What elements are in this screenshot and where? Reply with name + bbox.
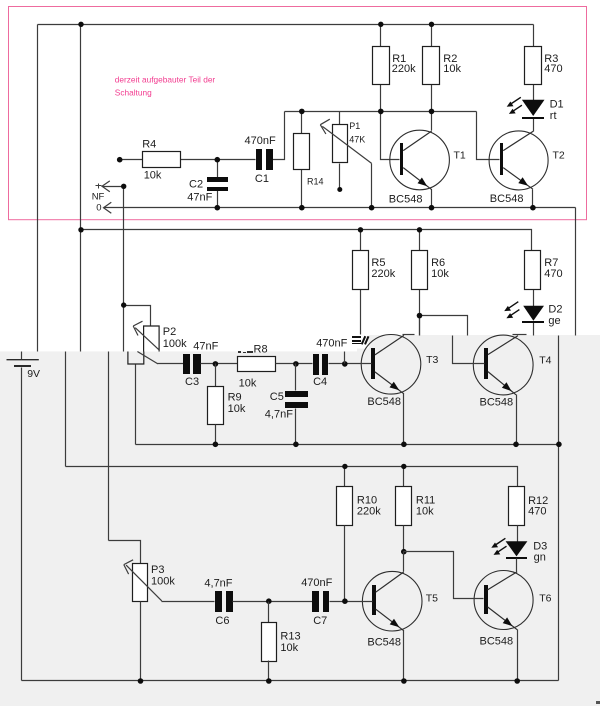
node stage2 rail T3 emitter xyxy=(401,442,407,448)
resistor R12 xyxy=(509,487,549,526)
wire R4 right to C2 node xyxy=(181,159,256,161)
P1 wiper diagonal xyxy=(322,126,371,163)
node bottom rail T6 emitter xyxy=(514,678,520,684)
svg-text:47nF: 47nF xyxy=(187,192,212,204)
node zero rail T1 emitter xyxy=(429,205,435,211)
wire R6 top stem xyxy=(419,230,421,251)
svg-text:10k: 10k xyxy=(443,63,461,75)
wire R14 bottom stem xyxy=(301,170,303,208)
node P1 lower open end xyxy=(337,187,342,192)
node C3/R9 junction xyxy=(213,361,219,367)
wire battery negative down to bottom rail xyxy=(21,368,23,681)
svg-text:9V: 9V xyxy=(27,368,40,380)
wire C5 top stem xyxy=(295,364,297,391)
svg-text:R4: R4 xyxy=(142,139,156,151)
node stage3 rail R11 xyxy=(401,464,406,469)
wire T6 emitter down to bottom rail xyxy=(517,630,519,681)
wire R5 bottom stem ending at seam xyxy=(360,289,362,335)
node base rail R14 xyxy=(299,109,305,115)
capacitor C5 xyxy=(265,391,308,421)
wire R11 bottom to collector node xyxy=(403,526,405,552)
wire T2 base feed corner xyxy=(477,112,500,160)
resistor R4 xyxy=(142,139,180,182)
svg-text:470: 470 xyxy=(544,63,562,75)
resistor R11 xyxy=(396,487,436,526)
wire C4 to T3 base xyxy=(329,363,372,365)
wire C2 top stem xyxy=(217,160,219,178)
gray page background lower-right region xyxy=(357,335,600,706)
svg-text:100k: 100k xyxy=(163,338,187,350)
seam artifact arc fragment above T3 xyxy=(403,334,415,336)
transistor T5 xyxy=(362,571,422,631)
svg-text:C4: C4 xyxy=(313,376,327,388)
transistor T1 xyxy=(390,130,450,190)
wire supply distribution vertical x81 xyxy=(80,25,82,352)
potentiometer P3 xyxy=(133,564,176,602)
wire right outer vertical lower part xyxy=(558,336,560,681)
wire P3 bottom stem to bottom rail xyxy=(140,602,142,681)
svg-text:470nF: 470nF xyxy=(301,577,332,589)
wire R7 bottom to D2 anode xyxy=(533,289,535,307)
svg-text:BC548: BC548 xyxy=(389,193,423,205)
capacitor C3 xyxy=(183,340,219,388)
capacitor C1 xyxy=(245,135,276,185)
P2 wiper diagonal upper xyxy=(135,328,159,351)
svg-text:P2: P2 xyxy=(163,326,176,338)
resistor R13 xyxy=(262,623,301,662)
LED D1 emission arrows xyxy=(507,97,522,114)
wire R1 top stem xyxy=(380,25,382,47)
node bottom rail T5 emitter xyxy=(401,678,407,684)
wire R14 top stem xyxy=(301,112,303,134)
wire T6 base feed jog xyxy=(404,552,484,599)
wire signal from wiper to C3 xyxy=(158,363,184,365)
wire corner from C1 up to base rail xyxy=(273,112,285,160)
svg-text:100k: 100k xyxy=(151,576,175,588)
svg-text:10k: 10k xyxy=(280,642,298,654)
node base rail R1/T1 xyxy=(378,109,384,115)
svg-text:470: 470 xyxy=(544,268,562,280)
wire D1 cathode to T2 collector xyxy=(533,119,535,132)
svg-text:220k: 220k xyxy=(392,63,416,75)
wire stage3 top rail xyxy=(66,467,518,487)
wire top supply rail stage1 xyxy=(38,24,534,26)
wire C3 to R8 xyxy=(201,363,238,365)
wire R11 top stem xyxy=(403,467,405,487)
wire P3 top feed jog xyxy=(109,541,141,564)
svg-text:Schaltung: Schaltung xyxy=(115,88,152,98)
svg-text:0: 0 xyxy=(96,202,101,213)
wire R8 to C4 xyxy=(276,363,313,365)
wire T4 base feed lower jog xyxy=(453,336,485,364)
P2 wiper diagonal lower xyxy=(137,352,158,364)
wire C2 bottom stem to zero rail xyxy=(217,191,219,208)
bottom right corner tiny mark xyxy=(596,701,600,704)
wire stage2 node to T4 base upper jog xyxy=(420,316,468,336)
svg-text:C1: C1 xyxy=(255,173,269,185)
node C6/R13 junction xyxy=(266,598,272,604)
svg-text:R10: R10 xyxy=(357,494,377,506)
wire R5 top stem xyxy=(360,230,362,251)
wire R2 bottom stem xyxy=(431,84,433,112)
node bottom rail P3 xyxy=(138,678,144,684)
wire zero rail stage1 xyxy=(104,207,576,209)
svg-text:BC548: BC548 xyxy=(490,193,524,205)
wire stage2 top rail xyxy=(81,230,532,251)
node R11 bottom junction xyxy=(401,549,407,555)
gray page background lower-left region xyxy=(0,351,357,706)
svg-text:C5: C5 xyxy=(270,391,284,403)
svg-text:T3: T3 xyxy=(426,354,438,366)
NF plus signal vertical down xyxy=(123,187,125,352)
svg-text:47K: 47K xyxy=(349,135,365,145)
wire bottom rail xyxy=(22,680,559,682)
svg-text:C3: C3 xyxy=(185,376,199,388)
svg-text:C2: C2 xyxy=(189,179,203,191)
wire NF plus vertical lower part xyxy=(108,352,110,541)
resistor R7 xyxy=(525,251,563,290)
battery 9V short thick plate xyxy=(14,365,31,367)
LED D3 xyxy=(506,540,548,563)
P3 wiper diagonal xyxy=(126,565,162,601)
wire D3 cathode to T6 collector xyxy=(516,559,518,572)
node stage2 top rail left xyxy=(78,227,83,232)
wire T1 base feed from rail xyxy=(381,112,400,160)
wire C7 to T5 base xyxy=(330,601,373,603)
seam artifact slashes xyxy=(362,336,369,344)
svg-text:T1: T1 xyxy=(454,149,466,161)
wire P1 bottom stem to open end xyxy=(339,164,341,190)
wire T1 collector up to R2 node xyxy=(431,112,433,131)
svg-text:R8: R8 xyxy=(254,344,268,356)
LED D1 xyxy=(522,98,564,122)
wire R12 bottom to D3 anode xyxy=(517,526,519,542)
node stage2 rail right end xyxy=(556,442,562,448)
node NF plus junction xyxy=(121,184,126,189)
svg-text:10k: 10k xyxy=(228,403,246,415)
transistor T3 xyxy=(361,335,421,395)
svg-text:10k: 10k xyxy=(416,506,434,518)
wire P2 top feed from NF vertical xyxy=(124,306,151,327)
svg-text:gn: gn xyxy=(534,551,546,563)
svg-text:T2: T2 xyxy=(553,149,565,161)
wire P1 wiper drop to zero rail xyxy=(371,164,373,208)
seam artifact arc fragment above T4 xyxy=(513,334,527,336)
node stage2 base rail R6 xyxy=(417,313,423,319)
wire R4 left stem xyxy=(120,159,143,161)
svg-text:10k: 10k xyxy=(239,377,257,389)
wire T2 emitter down to zero rail xyxy=(532,190,534,208)
svg-text:10k: 10k xyxy=(144,169,162,181)
node R4/C2/C1 junction xyxy=(215,157,221,163)
node C7/R10/T5 base junction xyxy=(342,598,348,604)
svg-text:P1: P1 xyxy=(349,121,360,131)
svg-text:470: 470 xyxy=(528,506,546,518)
wire T5 emitter down to bottom rail xyxy=(403,631,405,681)
node top rail x81 xyxy=(78,22,83,27)
battery 9V long plate xyxy=(7,359,39,361)
potentiometer P1 xyxy=(333,121,366,162)
wire T3 collector vertical gap stub xyxy=(419,316,421,336)
node zero rail C2 xyxy=(215,205,221,211)
wire stage1 base rail horizontal y111 xyxy=(285,111,477,113)
wire left outer vertical from top rail xyxy=(37,25,39,352)
wire stub above T3 base node xyxy=(344,352,346,364)
wire R2 top stem xyxy=(431,25,433,47)
transistor T2 xyxy=(489,131,548,190)
wire R1 bottom stem to base rail xyxy=(380,84,382,112)
svg-text:D1: D1 xyxy=(550,98,564,110)
svg-text:derzeit aufgebauter Teil der: derzeit aufgebauter Teil der xyxy=(115,75,216,85)
svg-text:BC548: BC548 xyxy=(480,397,514,409)
node R8/C5 junction xyxy=(293,361,299,367)
LED D3 emission arrows xyxy=(491,538,506,555)
svg-text:R11: R11 xyxy=(416,494,435,506)
wire R13 top stem xyxy=(268,602,270,623)
pink highlight frame around built part xyxy=(9,7,587,220)
wire P2 bottom stem down to stage2 emitter rail xyxy=(135,365,137,445)
wire D2 cathode stub ending at seam xyxy=(533,323,535,336)
svg-text:R14: R14 xyxy=(307,177,324,187)
svg-text:ge: ge xyxy=(548,315,560,327)
svg-text:4,7nF: 4,7nF xyxy=(265,409,293,421)
resistor R5 xyxy=(353,251,396,290)
wire P1 top stem xyxy=(339,112,341,125)
node stage2 rail T4 emitter xyxy=(513,442,519,448)
seam artifact clipped R8 text remnants xyxy=(238,351,253,353)
svg-text:220k: 220k xyxy=(357,506,381,518)
svg-text:C7: C7 xyxy=(313,615,327,627)
capacitor C2 xyxy=(187,177,228,204)
wire R9 bottom stem xyxy=(215,425,217,445)
node zero rail T2 emitter xyxy=(530,205,536,211)
svg-text:10k: 10k xyxy=(431,268,449,280)
wire zero rail right corner down to seam xyxy=(575,208,577,336)
capacitor C4 xyxy=(313,337,348,387)
svg-text:220k: 220k xyxy=(371,268,395,280)
wire R9 top stem xyxy=(215,364,217,387)
wire top rail corner down to R3 xyxy=(533,25,535,47)
svg-text:BC548: BC548 xyxy=(367,636,401,648)
resistor R6 xyxy=(412,251,450,290)
wire R10 top stem xyxy=(344,467,346,487)
white patch at seam step xyxy=(353,335,369,349)
wire C6 to C7 xyxy=(233,601,313,603)
wire R6 bottom stem to stage2 node xyxy=(419,289,421,336)
capacitor C7 xyxy=(301,577,332,627)
wire R13 bottom stem xyxy=(268,661,270,681)
battery 9V positive feed from left outer wire xyxy=(21,352,23,360)
node stage2 top rail R6 xyxy=(417,227,422,232)
NF plus input lead xyxy=(103,186,124,188)
svg-text:D2: D2 xyxy=(548,303,562,315)
node stage2 rail C5 xyxy=(293,442,299,448)
svg-text:BC548: BC548 xyxy=(367,396,401,408)
svg-text:R9: R9 xyxy=(228,391,242,403)
svg-text:P3: P3 xyxy=(151,564,164,576)
wire T4 emitter down to stage2 rail xyxy=(516,395,518,445)
P2 wiper arrowhead xyxy=(133,321,142,335)
wire wiper to C6 xyxy=(162,601,215,603)
wire stage2 emitter rail xyxy=(136,444,559,446)
NF zero input arrowhead xyxy=(104,202,112,213)
potentiometer P2 lower box part xyxy=(128,352,144,365)
resistor R14 xyxy=(294,134,324,187)
node C4/T3 base junction xyxy=(342,361,348,367)
svg-text:4,7nF: 4,7nF xyxy=(204,577,232,589)
wire T1 emitter down to zero rail xyxy=(431,190,433,208)
potentiometer P2 upper box part xyxy=(144,326,160,352)
resistor R8 xyxy=(238,344,276,390)
node bottom rail R13 xyxy=(266,678,272,684)
LED D2 xyxy=(522,303,562,327)
transistor T4 xyxy=(473,335,533,395)
seam artifact triple bars xyxy=(352,336,361,344)
svg-text:rt: rt xyxy=(550,110,557,122)
node base rail R2/T1 collector xyxy=(429,109,435,115)
wire supply vertical x65 lower part xyxy=(65,352,67,467)
wire R10 bottom down to T5 base node xyxy=(344,526,346,602)
resistor R3 xyxy=(525,47,563,85)
wire T5 collector stem xyxy=(403,552,405,572)
node top rail R2 xyxy=(429,22,434,27)
wire T3 emitter down to stage2 rail xyxy=(403,394,405,445)
resistor R2 xyxy=(423,47,462,85)
svg-text:NF: NF xyxy=(92,191,105,202)
node top rail R1 xyxy=(378,22,383,27)
NF plus input arrowhead xyxy=(102,181,110,192)
node P2 top junction xyxy=(121,302,126,307)
svg-text:R13: R13 xyxy=(280,631,300,643)
svg-text:470nF: 470nF xyxy=(316,337,347,349)
svg-text:T4: T4 xyxy=(539,354,551,366)
wire C5 bottom stem xyxy=(295,409,297,445)
svg-text:47nF: 47nF xyxy=(193,340,218,352)
svg-text:C6: C6 xyxy=(215,615,229,627)
resistor R9 xyxy=(208,387,246,425)
transistor T6 xyxy=(474,571,533,630)
svg-text:BC548: BC548 xyxy=(480,636,514,648)
svg-text:T5: T5 xyxy=(426,593,438,605)
svg-text:T6: T6 xyxy=(539,593,551,605)
node stage2 rail R9 xyxy=(213,442,219,448)
resistor R10 xyxy=(337,487,382,526)
wire R3 bottom to D1 anode xyxy=(533,84,535,101)
P3 wiper arrowhead xyxy=(124,560,133,574)
NF plus tiny plus sign xyxy=(96,184,102,189)
LED D2 emission arrows xyxy=(504,302,519,319)
node R4 open end xyxy=(117,157,123,163)
node zero rail P1 wiper xyxy=(369,205,375,211)
resistor R1 xyxy=(373,47,417,85)
node stage2 top rail R5 xyxy=(358,227,363,232)
svg-text:470nF: 470nF xyxy=(245,135,276,147)
node stage3 rail R10 xyxy=(342,464,347,469)
P1 wiper arrowhead xyxy=(320,119,330,134)
node zero rail R14 xyxy=(299,205,305,211)
capacitor C6 xyxy=(204,577,233,627)
